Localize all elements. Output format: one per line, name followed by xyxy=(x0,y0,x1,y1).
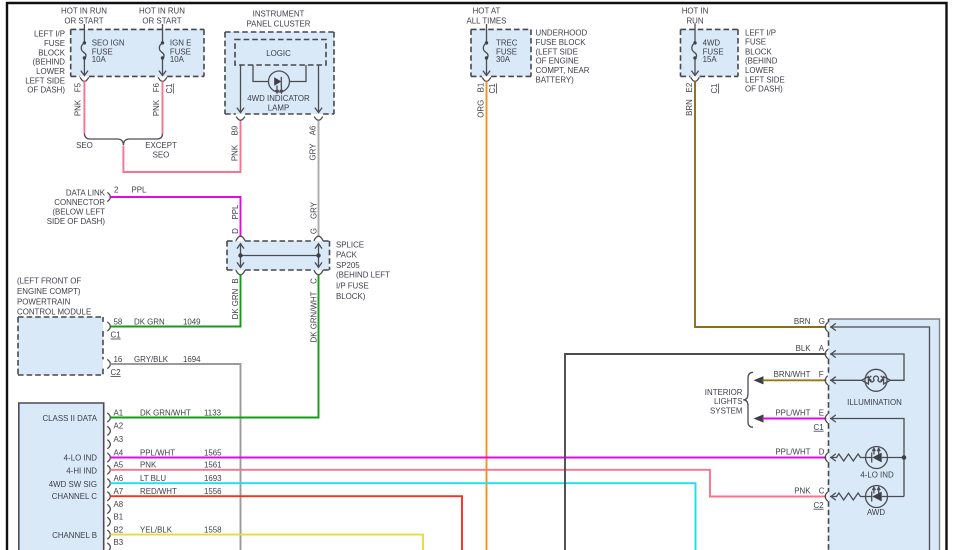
svg-text:(BEHIND: (BEHIND xyxy=(745,57,778,66)
wire PNK from F6 xyxy=(162,81,164,133)
svg-text:16: 16 xyxy=(114,355,123,364)
svg-text:EXCEPT: EXCEPT xyxy=(145,141,177,150)
powertrain control module box xyxy=(18,317,103,375)
svg-text:LOGIC: LOGIC xyxy=(266,49,291,58)
svg-text:I/P FUSE: I/P FUSE xyxy=(336,281,369,290)
svg-text:POWERTRAIN: POWERTRAIN xyxy=(17,297,71,306)
svg-text:A4: A4 xyxy=(114,448,124,457)
svg-text:ENGINE COMPT): ENGINE COMPT) xyxy=(17,287,81,296)
wire RED/WHT from A7 down off page xyxy=(110,496,462,550)
label 4WD INDICATOR LAMP xyxy=(247,94,310,113)
pin E2 (4WD fuse) xyxy=(685,77,699,92)
svg-text:INSTRUMENT: INSTRUMENT xyxy=(253,9,305,18)
svg-text:PNK: PNK xyxy=(794,486,811,495)
svg-text:A5: A5 xyxy=(114,461,124,470)
wire BLK inside module from pin A to lamp xyxy=(830,350,904,380)
wire ORG from TREC fuse xyxy=(486,81,488,550)
svg-text:G: G xyxy=(819,317,825,326)
svg-text:PPL/WHT: PPL/WHT xyxy=(775,447,810,456)
svg-text:F6: F6 xyxy=(152,82,161,92)
wire PPL/WHT from A4 to pin D xyxy=(110,457,826,459)
logic module U1 box xyxy=(235,40,326,66)
svg-text:B9: B9 xyxy=(231,125,240,135)
pin A7 xyxy=(107,487,123,501)
svg-text:SP205: SP205 xyxy=(336,261,360,270)
svg-text:BLK: BLK xyxy=(796,344,812,353)
svg-text:4-LO IND: 4-LO IND xyxy=(64,453,98,462)
svg-text:10A: 10A xyxy=(92,55,107,64)
pin A4 xyxy=(107,448,123,462)
svg-text:FUSE BLOCK: FUSE BLOCK xyxy=(536,38,587,47)
pin F6 xyxy=(152,77,167,92)
svg-text:LEFT SIDE: LEFT SIDE xyxy=(25,76,65,85)
label PPL/WHT 1565 xyxy=(140,448,222,457)
pin B2 (class II) xyxy=(107,525,123,539)
svg-text:LEFT I/P: LEFT I/P xyxy=(745,28,776,37)
svg-text:1694: 1694 xyxy=(183,355,201,364)
interior lights system brace xyxy=(743,372,753,427)
label: LEFT I/P FUSE BLOCK (BEHIND LOWER LEFT SIDE OF DASH) xyxy=(25,29,65,94)
svg-text:PPL/WHT: PPL/WHT xyxy=(775,408,810,417)
label PNK 1561 xyxy=(140,461,222,470)
wire BRN from 4WD fuse to pin G xyxy=(695,81,826,327)
svg-text:PACK: PACK xyxy=(336,250,358,259)
svg-text:CLASS II DATA: CLASS II DATA xyxy=(42,414,97,423)
wire DK GRN/WHT from A1 to splice pin C xyxy=(110,275,318,418)
label INTERIOR LIGHTS SYSTEM xyxy=(705,388,743,416)
svg-text:BLOCK: BLOCK xyxy=(38,48,65,57)
svg-text:BATTERY): BATTERY) xyxy=(536,75,575,84)
wire PNK from F5 xyxy=(83,81,85,133)
svg-text:OF DASH): OF DASH) xyxy=(27,86,65,95)
class II data module box xyxy=(19,403,104,550)
powertrain control module label xyxy=(17,276,91,316)
resistor R2 (AWD) xyxy=(830,493,866,500)
wire DK GRN from PCM 58 to splice pin B xyxy=(110,275,240,327)
svg-text:OF DASH): OF DASH) xyxy=(745,85,783,94)
svg-text:SIDE OF DASH): SIDE OF DASH) xyxy=(47,217,106,226)
LED 4-LO IND xyxy=(866,447,888,469)
svg-text:FUSE: FUSE xyxy=(44,39,65,48)
svg-text:ILLUMINATION: ILLUMINATION xyxy=(847,398,902,407)
label YEL/BLK 1558 xyxy=(140,525,222,534)
svg-text:(LEFT FRONT OF: (LEFT FRONT OF xyxy=(17,276,81,285)
svg-text:PNK: PNK xyxy=(140,461,157,470)
svg-text:DATA LINK: DATA LINK xyxy=(66,188,106,197)
label DK GRN 1049 xyxy=(134,317,201,326)
svg-text:UNDERHOOD: UNDERHOOD xyxy=(536,28,588,37)
svg-text:GRY: GRY xyxy=(310,201,319,219)
label RED/WHT 1556 xyxy=(140,487,222,496)
left I/P fuse block (4WD fuse) box xyxy=(681,29,739,76)
svg-text:2: 2 xyxy=(114,186,118,195)
instrument panel cluster label xyxy=(246,9,310,28)
svg-text:BRN: BRN xyxy=(685,99,694,116)
svg-text:CONTROL MODULE: CONTROL MODULE xyxy=(17,308,91,317)
fuse TREC 30A xyxy=(483,24,518,76)
svg-text:A8: A8 xyxy=(114,500,124,509)
wire logic to lamp left xyxy=(253,65,269,82)
svg-text:E: E xyxy=(819,408,824,417)
svg-text:1556: 1556 xyxy=(204,487,222,496)
instrument panel cluster box xyxy=(225,32,334,114)
wire BRN/WHT to interior lights (arrow) xyxy=(754,376,827,384)
wire PPL/WHT to interior lights (arrow) xyxy=(754,414,827,422)
pin A2 xyxy=(107,422,123,436)
svg-text:B2: B2 xyxy=(114,525,124,534)
pin A6 (class II) xyxy=(107,474,123,488)
wire GRY from A6 to splice pin G xyxy=(318,121,320,237)
svg-text:4WD: 4WD xyxy=(703,39,721,48)
splice pin G arc xyxy=(314,236,323,241)
svg-text:A6: A6 xyxy=(114,474,124,483)
svg-text:GRY/BLK: GRY/BLK xyxy=(134,355,169,364)
svg-text:DK GRN: DK GRN xyxy=(231,288,240,319)
svg-text:1565: 1565 xyxy=(204,448,222,457)
svg-text:(LEFT SIDE: (LEFT SIDE xyxy=(536,47,578,56)
svg-text:C1: C1 xyxy=(111,331,121,340)
label: HOT IN RUN OR START (left) xyxy=(61,6,107,25)
svg-text:A2: A2 xyxy=(114,422,124,431)
wire GRY/BLK from PCM 16 down off page xyxy=(110,364,240,550)
wire from pin E to LED bus xyxy=(830,415,904,497)
svg-text:LOWER: LOWER xyxy=(36,67,65,76)
pin B3 (class II) xyxy=(107,538,123,550)
pin A6 xyxy=(309,117,323,136)
svg-text:HOT IN RUN: HOT IN RUN xyxy=(61,6,107,15)
svg-text:4-LO IND: 4-LO IND xyxy=(860,470,894,479)
svg-text:PNK: PNK xyxy=(231,144,240,161)
pin A5 xyxy=(107,461,123,475)
svg-text:1561: 1561 xyxy=(204,461,222,470)
svg-text:1049: 1049 xyxy=(183,317,201,326)
pin E xyxy=(775,408,827,432)
svg-text:HOT AT: HOT AT xyxy=(473,6,501,15)
fuse 4WD 15A xyxy=(691,24,723,76)
resistor R1 (4-LO IND) xyxy=(830,454,866,461)
wire LT BLU from A6 down off page xyxy=(110,483,695,550)
svg-text:C: C xyxy=(310,278,319,284)
pin C xyxy=(794,486,828,510)
svg-text:BLOCK: BLOCK xyxy=(745,47,772,56)
svg-text:A3: A3 xyxy=(114,435,124,444)
svg-text:SPLICE: SPLICE xyxy=(336,240,364,249)
svg-text:OF ENGINE: OF ENGINE xyxy=(536,57,579,66)
svg-text:4WD INDICATOR: 4WD INDICATOR xyxy=(247,94,310,103)
svg-text:RED/WHT: RED/WHT xyxy=(140,487,177,496)
wire LED 4-LO to bus junction xyxy=(888,457,905,459)
svg-text:A: A xyxy=(819,344,825,353)
svg-text:BRN/WHT: BRN/WHT xyxy=(774,370,811,379)
svg-text:COMPT, NEAR: COMPT, NEAR xyxy=(536,66,590,75)
illumination lamp L1 xyxy=(862,369,891,391)
svg-text:LIGHTS: LIGHTS xyxy=(714,397,743,406)
svg-text:BLOCK): BLOCK) xyxy=(336,292,366,301)
svg-text:C2: C2 xyxy=(814,501,824,510)
label LEFT I/P FUSE BLOCK (BEHIND LOWER LEFT SIDE OF DASH) right xyxy=(745,28,785,93)
svg-text:LOWER: LOWER xyxy=(745,66,774,75)
svg-text:A1: A1 xyxy=(114,408,124,417)
svg-text:A6: A6 xyxy=(309,125,318,135)
svg-text:FUSE: FUSE xyxy=(745,38,766,47)
wire BLK from pin A down off page xyxy=(565,354,826,550)
label EXCEPT SEO xyxy=(145,141,177,160)
splice pack SP205 box xyxy=(227,241,330,270)
svg-text:PNK: PNK xyxy=(152,99,161,116)
svg-text:D: D xyxy=(819,447,825,456)
svg-text:SYSTEM: SYSTEM xyxy=(710,406,742,415)
pin D xyxy=(775,447,827,462)
svg-text:(BELOW LEFT: (BELOW LEFT xyxy=(52,207,105,216)
svg-text:15A: 15A xyxy=(703,55,718,64)
svg-text:PANEL CLUSTER: PANEL CLUSTER xyxy=(246,20,310,29)
svg-text:1693: 1693 xyxy=(204,474,222,483)
data link connector label xyxy=(47,188,106,226)
junction dot xyxy=(902,455,907,460)
svg-text:AWD: AWD xyxy=(867,508,885,517)
svg-text:A7: A7 xyxy=(114,487,124,496)
wire PPL from DLC to splice pin D xyxy=(110,197,240,236)
LED AWD xyxy=(866,486,888,508)
svg-text:B1: B1 xyxy=(114,513,124,522)
svg-text:HOT IN RUN: HOT IN RUN xyxy=(139,6,185,15)
pin F5 xyxy=(74,77,89,92)
svg-text:30A: 30A xyxy=(496,55,511,64)
splice internal bus SP205 xyxy=(237,244,322,268)
svg-text:LEFT I/P: LEFT I/P xyxy=(34,29,65,38)
LED 4WD indicator lamp xyxy=(269,71,290,93)
svg-text:4WD SW SIG: 4WD SW SIG xyxy=(49,480,97,489)
wire BRN inside module from pin G xyxy=(830,323,930,550)
pin 16 (PCM C2) xyxy=(107,355,123,369)
label HOT IN RUN xyxy=(682,6,709,25)
label GRY/BLK 1694 xyxy=(134,355,201,364)
svg-text:SEO: SEO xyxy=(76,141,93,150)
pin A3 xyxy=(107,435,123,449)
svg-text:58: 58 xyxy=(114,317,123,326)
svg-text:E2: E2 xyxy=(685,83,694,93)
svg-text:LEFT SIDE: LEFT SIDE xyxy=(745,75,785,84)
svg-text:D: D xyxy=(231,228,240,234)
svg-text:ORG: ORG xyxy=(477,100,486,118)
svg-text:LT BLU: LT BLU xyxy=(140,474,166,483)
svg-text:C1: C1 xyxy=(165,83,174,93)
svg-text:F5: F5 xyxy=(74,82,83,92)
pin B9 xyxy=(231,117,245,136)
splice pin C arc xyxy=(314,270,323,275)
underhood fuse block box xyxy=(471,29,531,76)
svg-text:DK GRN: DK GRN xyxy=(134,317,165,326)
brace SEO / EXCEPT SEO xyxy=(84,134,162,146)
svg-text:LAMP: LAMP xyxy=(268,103,290,112)
svg-text:PPL: PPL xyxy=(132,186,148,195)
pin B1 (TREC) xyxy=(477,77,491,92)
pin 2 (data link connector) xyxy=(107,186,118,202)
fuse block 1 (Left I/P fuse block) box xyxy=(71,29,204,76)
svg-text:CHANNEL C: CHANNEL C xyxy=(52,492,98,501)
pin A1 xyxy=(107,408,123,422)
svg-text:HOT IN: HOT IN xyxy=(682,6,709,15)
svg-text:C1: C1 xyxy=(710,83,719,93)
svg-text:GRY: GRY xyxy=(309,143,318,161)
svg-text:(BEHIND: (BEHIND xyxy=(33,57,66,66)
svg-text:1558: 1558 xyxy=(204,525,222,534)
wire logic to lamp right xyxy=(290,65,307,82)
splice pin D arc xyxy=(236,236,245,241)
svg-text:C1: C1 xyxy=(488,83,497,93)
label HOT AT ALL TIMES xyxy=(467,6,507,25)
wire logic left lead to pin B9 xyxy=(237,65,244,113)
svg-text:C2: C2 xyxy=(111,368,121,377)
svg-text:CONNECTOR: CONNECTOR xyxy=(54,198,105,207)
pin G xyxy=(794,317,828,332)
label SPLICE PACK SP205 (BEHIND LEFT I/P FUSE BLOCK) xyxy=(336,240,390,301)
svg-text:C1: C1 xyxy=(814,423,824,432)
label UNDERHOOD FUSE BLOCK (LEFT SIDE OF ENGINE COMPT, NEAR BATTERY) xyxy=(536,28,590,84)
svg-text:C: C xyxy=(819,486,825,495)
svg-text:INTERIOR: INTERIOR xyxy=(705,388,743,397)
svg-text:4-HI IND: 4-HI IND xyxy=(66,466,97,475)
svg-text:SEO: SEO xyxy=(153,150,170,159)
svg-text:DK GRN/WHT: DK GRN/WHT xyxy=(310,291,319,342)
label LT BLU 1693 xyxy=(140,474,222,483)
wire PNK from brace to cluster pin B9 xyxy=(123,121,240,172)
svg-text:G: G xyxy=(310,228,319,234)
svg-text:SEO IGN: SEO IGN xyxy=(92,39,125,48)
svg-text:10A: 10A xyxy=(170,55,185,64)
wire logic right lead to pin A6 xyxy=(315,65,322,113)
pin 58 (PCM C1) xyxy=(107,317,123,331)
svg-text:B3: B3 xyxy=(114,538,124,547)
splice pin B arc xyxy=(236,270,245,275)
fuse IGN E 10A xyxy=(159,24,191,76)
pin B1 (class II) xyxy=(107,513,123,527)
svg-text:F: F xyxy=(819,370,824,379)
pin A xyxy=(796,344,828,359)
svg-text:B: B xyxy=(231,278,240,283)
label: HOT IN RUN OR START (right) xyxy=(139,6,185,25)
svg-text:(BEHIND LEFT: (BEHIND LEFT xyxy=(336,270,390,279)
wire YEL/BLK from B2 down off page xyxy=(110,535,423,550)
svg-text:YEL/BLK: YEL/BLK xyxy=(140,525,173,534)
wire from pin F to illumination lamp xyxy=(830,377,862,384)
wire PNK from A5 to pin C xyxy=(110,470,826,497)
wire LED AWD to bus xyxy=(888,496,905,498)
svg-text:DK GRN/WHT: DK GRN/WHT xyxy=(140,408,191,417)
svg-text:TREC: TREC xyxy=(496,39,518,48)
svg-text:PPL/WHT: PPL/WHT xyxy=(140,448,175,457)
svg-text:PPL: PPL xyxy=(231,204,240,220)
fuse SEO IGN 10A xyxy=(81,24,125,76)
svg-text:B1: B1 xyxy=(477,83,486,93)
svg-text:1133: 1133 xyxy=(204,408,222,417)
svg-text:PNK: PNK xyxy=(74,99,83,116)
pin F xyxy=(774,370,828,385)
4WD module box (right) xyxy=(829,319,940,550)
svg-text:CHANNEL B: CHANNEL B xyxy=(52,531,97,540)
svg-text:BRN: BRN xyxy=(794,317,811,326)
pin A8 xyxy=(107,500,123,514)
svg-text:IGN E: IGN E xyxy=(170,39,191,48)
label DK GRN/WHT 1133 xyxy=(140,408,222,417)
